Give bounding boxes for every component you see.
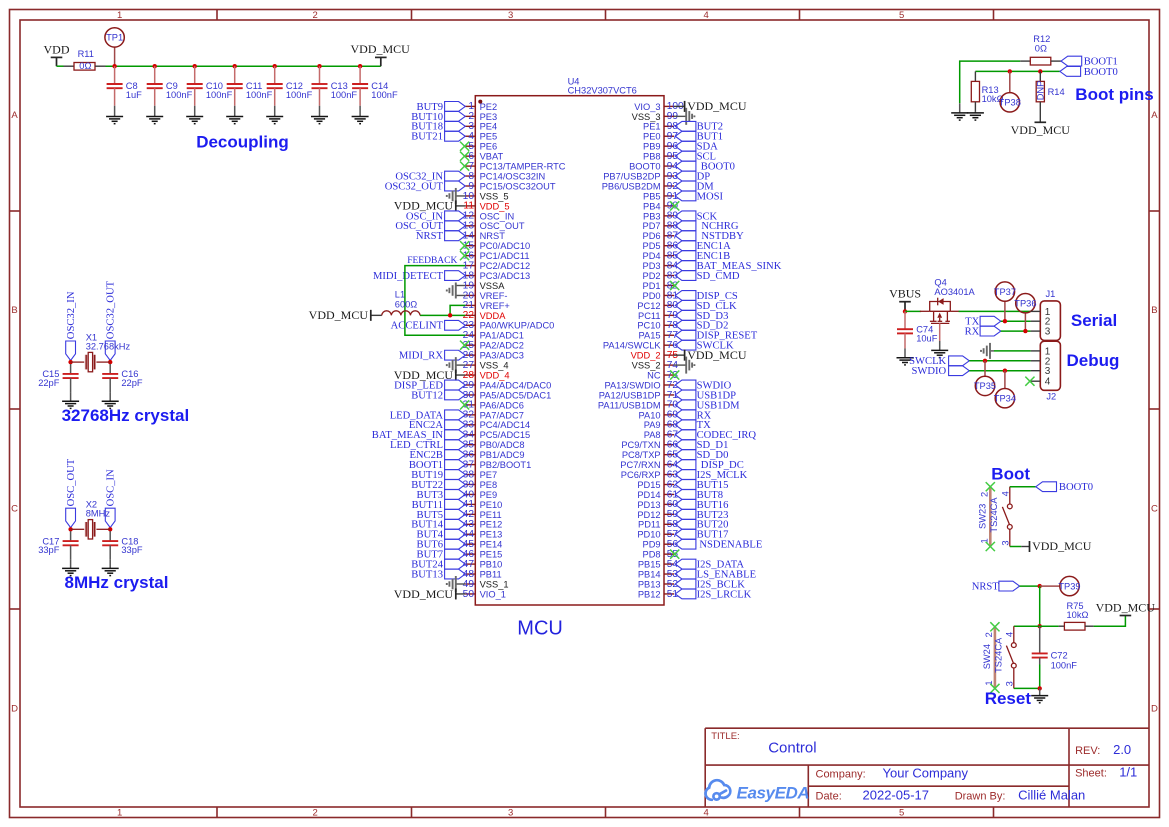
op-amp U4 MCU body bbox=[475, 76, 664, 605]
net flag NSDENABLE bbox=[675, 539, 762, 550]
ground below C13 bbox=[311, 117, 328, 124]
pin 34 PC5/ADC15 bbox=[463, 430, 531, 441]
pin 47 PB10 bbox=[463, 559, 503, 570]
svg-text:2022-05-17: 2022-05-17 bbox=[863, 787, 930, 802]
pin 12 OSC_IN bbox=[463, 211, 515, 222]
net flag BUT1 bbox=[675, 131, 723, 142]
no-connect pin 82 bbox=[670, 281, 679, 290]
pin 97 PE0 bbox=[643, 131, 678, 142]
ground below BOOT1 wire bbox=[951, 103, 968, 120]
svg-text:Drawn By:: Drawn By: bbox=[955, 790, 1006, 802]
pin 67 PA8 bbox=[644, 430, 679, 441]
net flag ACCELINT bbox=[391, 320, 466, 331]
svg-text:VDD: VDD bbox=[44, 43, 70, 57]
net flag OSC32_OUT bbox=[105, 280, 116, 360]
svg-text:NSDENABLE: NSDENABLE bbox=[699, 540, 762, 551]
pin 5 PE6 bbox=[465, 141, 497, 152]
pin 78 PC10 bbox=[637, 320, 678, 331]
svg-text:4: 4 bbox=[1000, 491, 1010, 496]
pin 8 PC14/OSC32IN bbox=[465, 171, 545, 182]
net flag USB1DM bbox=[675, 400, 740, 411]
svg-text:PD2: PD2 bbox=[643, 271, 661, 281]
no-connect pin 25 bbox=[460, 341, 469, 350]
power flag VBUS bbox=[889, 287, 921, 312]
svg-text:PA9: PA9 bbox=[644, 420, 661, 430]
ground below C15 bbox=[62, 401, 79, 408]
pin 84 PD3 bbox=[643, 260, 679, 271]
power VDD_MCU at pin 100 bbox=[674, 99, 747, 113]
net flag ENC1A bbox=[675, 241, 731, 252]
net flag BUT7 bbox=[417, 549, 466, 560]
pin 31 PA6/ADC6 bbox=[463, 400, 524, 411]
net flag SCK bbox=[675, 211, 717, 222]
svg-text:3: 3 bbox=[1000, 540, 1010, 545]
net flag DP bbox=[675, 171, 710, 182]
svg-text:PC8/TXP: PC8/TXP bbox=[622, 450, 661, 460]
svg-text:PD1: PD1 bbox=[643, 281, 661, 291]
junction TX TP37 bbox=[1003, 319, 1007, 323]
svg-text:VDD_4: VDD_4 bbox=[480, 370, 510, 380]
svg-text:PC4/ADC14: PC4/ADC14 bbox=[480, 420, 531, 430]
pin 73 NC bbox=[647, 370, 678, 381]
svg-text:PE0: PE0 bbox=[643, 132, 661, 142]
resistor R14 DNP bbox=[1036, 71, 1065, 122]
power VDD_MCU at R75 bbox=[1096, 600, 1156, 615]
pin 19 VSSA bbox=[463, 280, 506, 291]
ground below C16 bbox=[102, 401, 119, 408]
svg-text:VBAT: VBAT bbox=[480, 152, 504, 162]
ground below C9 bbox=[146, 117, 163, 124]
pin 37 PB2/BOOT1 bbox=[463, 459, 532, 470]
net flag BUT20 bbox=[675, 519, 728, 530]
svg-text:PB15: PB15 bbox=[638, 560, 661, 570]
svg-text:CH32V307VCT6: CH32V307VCT6 bbox=[568, 86, 637, 96]
pin 94 BOOT0 bbox=[629, 161, 678, 172]
ground at J2 pin1 bbox=[981, 343, 994, 359]
capacitor C10 bbox=[187, 66, 233, 116]
svg-text:Your Company: Your Company bbox=[883, 765, 969, 780]
svg-text:PE11: PE11 bbox=[480, 510, 502, 520]
svg-text:3: 3 bbox=[1004, 681, 1014, 686]
net flag SD_CMD bbox=[675, 271, 740, 282]
connector J1 bbox=[1031, 289, 1061, 341]
net flag BUT18 bbox=[411, 121, 465, 132]
svg-text:PD11: PD11 bbox=[638, 520, 661, 530]
pin 43 PE12 bbox=[463, 519, 503, 530]
pin 69 PA10 bbox=[639, 410, 679, 421]
svg-text:3: 3 bbox=[1045, 327, 1051, 338]
wire SW24 pin3 to ground node bbox=[1014, 687, 1040, 689]
svg-text:32.768kHz: 32.768kHz bbox=[86, 341, 131, 351]
svg-text:OSC32_IN: OSC32_IN bbox=[66, 291, 77, 339]
svg-text:8MHz crystal: 8MHz crystal bbox=[65, 573, 169, 592]
junction SWDIO TP34 bbox=[1003, 369, 1007, 373]
net flag OSC_IN bbox=[105, 469, 116, 528]
no-connect pin 7 bbox=[460, 162, 469, 171]
junction ground node bbox=[1038, 686, 1042, 690]
svg-text:Control: Control bbox=[768, 740, 816, 757]
svg-text:PC12: PC12 bbox=[637, 301, 660, 311]
pin 30 PA5/ADC5/DAC1 bbox=[463, 390, 552, 401]
svg-text:PB7/USB2DP: PB7/USB2DP bbox=[603, 171, 660, 181]
wire crystal X1 left node bbox=[70, 360, 72, 364]
junction VBUS node bbox=[903, 309, 907, 313]
pin 68 PA9 bbox=[644, 420, 679, 431]
pin 86 PD5 bbox=[643, 241, 679, 252]
svg-text:J1: J1 bbox=[1046, 289, 1056, 299]
pin 49 VSS_1 bbox=[463, 579, 509, 590]
pin 15 PC0/ADC10 bbox=[463, 241, 531, 252]
wire VDD to R11 bbox=[57, 65, 64, 67]
svg-text:RX: RX bbox=[965, 327, 980, 338]
pin 28 VDD_4 bbox=[463, 370, 510, 381]
pin 23 PA0/WKUP/ADC0 bbox=[463, 320, 555, 331]
svg-text:PA15: PA15 bbox=[639, 331, 661, 341]
svg-text:PB8: PB8 bbox=[643, 152, 661, 162]
pin 46 PE15 bbox=[463, 549, 503, 560]
wire Q4 to J1 pin1 bbox=[959, 310, 1031, 312]
svg-text:TP37: TP37 bbox=[994, 287, 1016, 297]
pin 71 PA12/USB1DP bbox=[599, 390, 679, 401]
pin 35 PB0/ADC8 bbox=[463, 440, 525, 451]
net flag BUT13 bbox=[411, 569, 465, 580]
svg-text:PD3: PD3 bbox=[643, 261, 661, 271]
pin 42 PE11 bbox=[463, 509, 502, 520]
net flag RX bbox=[965, 326, 1001, 337]
net flag BUT2 bbox=[675, 121, 723, 132]
svg-text:VSS_3: VSS_3 bbox=[632, 112, 661, 122]
svg-text:VDDA: VDDA bbox=[480, 311, 507, 321]
net flag RX bbox=[675, 410, 711, 421]
no-connect J2 pin4 bbox=[1025, 377, 1034, 386]
svg-text:TITLE:: TITLE: bbox=[711, 731, 740, 742]
ground at pins 19-20 bbox=[447, 282, 466, 298]
net flag BUT24 bbox=[411, 559, 465, 570]
svg-text:C: C bbox=[1151, 504, 1158, 515]
svg-text:100nF: 100nF bbox=[286, 90, 313, 100]
svg-text:R11: R11 bbox=[78, 49, 94, 59]
svg-text:4: 4 bbox=[1045, 377, 1051, 388]
svg-text:SD_CMD: SD_CMD bbox=[697, 271, 740, 282]
pin 63 PC6/RXP bbox=[621, 469, 679, 480]
crystal X2 bbox=[71, 500, 111, 540]
svg-text:Debug: Debug bbox=[1067, 351, 1120, 370]
no-connect pin 16 bbox=[460, 251, 469, 260]
svg-text:PD12: PD12 bbox=[637, 510, 660, 520]
svg-text:100nF: 100nF bbox=[166, 90, 193, 100]
svg-text:VSS_2: VSS_2 bbox=[632, 361, 661, 371]
svg-text:PC1/ADC11: PC1/ADC11 bbox=[480, 251, 530, 261]
svg-text:2: 2 bbox=[313, 10, 318, 21]
pin 32 PA7/ADC7 bbox=[463, 410, 524, 421]
svg-text:B: B bbox=[11, 305, 17, 316]
pin 11 VDD_5 bbox=[463, 201, 509, 212]
net flag BUT8 bbox=[675, 490, 723, 501]
svg-text:PA4/ADC4/DAC0: PA4/ADC4/DAC0 bbox=[480, 380, 552, 390]
svg-text:PB12: PB12 bbox=[638, 589, 661, 599]
net flag BUT15 bbox=[675, 480, 728, 491]
net flag MOSI bbox=[675, 191, 723, 202]
svg-text:NRST: NRST bbox=[972, 582, 1000, 593]
svg-text:VSS_5: VSS_5 bbox=[480, 191, 509, 201]
svg-text:600Ω: 600Ω bbox=[395, 299, 418, 309]
power flag VDD bbox=[44, 43, 70, 67]
svg-text:Company:: Company: bbox=[816, 768, 866, 780]
capacitor C14 bbox=[352, 66, 398, 116]
ground below C10 bbox=[186, 117, 203, 124]
wire RX to J1 pin3 bbox=[1001, 330, 1031, 332]
pin 95 PB8 bbox=[643, 151, 678, 162]
svg-text:PA0/WKUP/ADC0: PA0/WKUP/ADC0 bbox=[480, 321, 555, 331]
svg-text:PE8: PE8 bbox=[480, 480, 498, 490]
net flag OSC32_IN bbox=[66, 291, 77, 360]
svg-text:TS24CA: TS24CA bbox=[994, 637, 1004, 673]
svg-text:VDD_MCU: VDD_MCU bbox=[1011, 123, 1071, 137]
power VDD_MCU at pin 50 bbox=[394, 587, 466, 601]
svg-text:PA5/ADC5/DAC1: PA5/ADC5/DAC1 bbox=[480, 390, 552, 400]
net flag SD_D3 bbox=[675, 310, 728, 321]
junction X2 left bbox=[68, 527, 72, 531]
svg-text:1/1: 1/1 bbox=[1119, 765, 1137, 780]
svg-text:PC5/ADC15: PC5/ADC15 bbox=[480, 430, 531, 440]
svg-text:MOSI: MOSI bbox=[697, 191, 724, 202]
pin 76 PA14/SWCLK bbox=[603, 340, 678, 351]
net flag DISP_RESET bbox=[675, 330, 758, 341]
svg-text:L1: L1 bbox=[395, 289, 405, 299]
pin 80 PC12 bbox=[637, 300, 678, 311]
svg-text:2: 2 bbox=[313, 807, 318, 818]
svg-text:PA6/ADC6: PA6/ADC6 bbox=[480, 400, 524, 410]
svg-text:VDD_MCU: VDD_MCU bbox=[1096, 600, 1156, 614]
svg-text:32768Hz crystal: 32768Hz crystal bbox=[62, 406, 190, 425]
title block bbox=[705, 728, 1149, 807]
svg-text:PB5: PB5 bbox=[643, 191, 661, 201]
svg-text:4: 4 bbox=[704, 10, 709, 21]
pin 64 PC7/RXN bbox=[620, 459, 678, 470]
wire SWCLK to J2 pin2 bbox=[969, 360, 1030, 362]
net flag LED_DATA bbox=[390, 410, 466, 421]
net flag DISP_CS bbox=[675, 291, 738, 302]
capacitor C16 bbox=[102, 364, 143, 401]
net flag BOOT0 boot section bbox=[1036, 482, 1093, 493]
pin 89 PB3 bbox=[643, 211, 678, 222]
svg-text:PC9/TXN: PC9/TXN bbox=[621, 440, 660, 450]
capacitor C17 bbox=[38, 531, 78, 568]
svg-text:PD5: PD5 bbox=[643, 241, 661, 251]
pin 74 VSS_2 bbox=[632, 360, 679, 371]
svg-text:PD7: PD7 bbox=[643, 221, 661, 231]
no-connect SW23 pin1 bbox=[986, 542, 995, 551]
pin 72 PA13/SWDIO bbox=[604, 380, 678, 391]
net flag USB1DP bbox=[675, 390, 736, 401]
wire J2 pin1 to ground bbox=[994, 350, 1031, 352]
pin 77 PA15 bbox=[639, 330, 679, 341]
ground below C8 bbox=[106, 117, 123, 124]
svg-text:ACCELINT: ACCELINT bbox=[391, 321, 444, 332]
svg-text:PD15: PD15 bbox=[637, 480, 660, 490]
wire pin22 VDDA bbox=[420, 314, 465, 316]
svg-text:VDD_5: VDD_5 bbox=[480, 201, 510, 211]
pin 81 PD0 bbox=[643, 290, 679, 301]
junction VDDA node bbox=[448, 313, 452, 317]
power VDD_MCU below R14 bbox=[1011, 122, 1071, 137]
svg-text:AO3401A: AO3401A bbox=[934, 287, 975, 297]
net flag TX bbox=[965, 316, 1001, 327]
svg-text:PC2/ADC12: PC2/ADC12 bbox=[480, 261, 531, 271]
svg-text:VDD_MCU: VDD_MCU bbox=[687, 99, 747, 113]
net flag SDA bbox=[675, 141, 718, 152]
ground at pin 99 bbox=[674, 108, 694, 125]
net flag BOOT0 bbox=[675, 161, 735, 172]
net flag BUT6 bbox=[417, 539, 466, 550]
net flag ENC2B bbox=[409, 450, 465, 461]
wire SWDIO to J2 pin3 bbox=[969, 370, 1030, 372]
test point TP1 bbox=[105, 28, 124, 66]
net flag SD_D0 bbox=[675, 450, 728, 461]
wire TX to J1 pin2 bbox=[1001, 320, 1031, 322]
svg-text:Boot pins: Boot pins bbox=[1075, 85, 1153, 104]
ground below C18 bbox=[102, 568, 119, 575]
svg-text:PB10: PB10 bbox=[480, 560, 503, 570]
power VDD_MCU at pin 75 bbox=[674, 348, 747, 362]
junction SWCLK TP35 bbox=[983, 359, 987, 363]
svg-text:VSSA: VSSA bbox=[480, 281, 506, 291]
svg-text:PB11: PB11 bbox=[480, 569, 502, 579]
svg-text:PC7/RXN: PC7/RXN bbox=[620, 460, 660, 470]
test point TP35 bbox=[974, 361, 996, 396]
svg-text:OSC_OUT: OSC_OUT bbox=[66, 458, 77, 506]
net flag SWDIO bbox=[675, 380, 731, 391]
net flag I2S_BCLK bbox=[675, 579, 745, 590]
net flag I2S_MCLK bbox=[675, 470, 747, 481]
EasyEDA logo bbox=[706, 780, 810, 802]
no-connect SW24 pin2 bbox=[990, 622, 999, 631]
svg-text:TP34: TP34 bbox=[994, 393, 1016, 403]
svg-text:1: 1 bbox=[117, 807, 122, 818]
pin 39 PE8 bbox=[463, 479, 498, 490]
svg-text:EasyEDA: EasyEDA bbox=[737, 783, 810, 802]
capacitor C18 bbox=[102, 531, 143, 568]
svg-text:100nF: 100nF bbox=[206, 90, 233, 100]
svg-text:0Ω: 0Ω bbox=[79, 61, 91, 71]
svg-text:PA14/SWCLK: PA14/SWCLK bbox=[603, 341, 661, 351]
pin 79 PC11 bbox=[638, 310, 678, 321]
svg-text:R14: R14 bbox=[1048, 87, 1065, 97]
svg-text:100nF: 100nF bbox=[371, 90, 398, 100]
capacitor C74 bbox=[897, 311, 938, 357]
net flag BUT19 bbox=[411, 470, 465, 481]
svg-text:Reset: Reset bbox=[985, 689, 1032, 708]
svg-text:VSS_4: VSS_4 bbox=[480, 361, 509, 371]
pin 6 VBAT bbox=[465, 151, 503, 162]
svg-text:PE4: PE4 bbox=[480, 122, 498, 132]
pin 14 NRST bbox=[463, 231, 506, 242]
pin 65 PC8/TXP bbox=[622, 449, 679, 460]
svg-text:PD8: PD8 bbox=[643, 550, 661, 560]
capacitor C15 bbox=[38, 364, 78, 401]
pin 83 PD2 bbox=[643, 270, 679, 281]
junction node at C14 bbox=[358, 64, 362, 68]
svg-text:DNP: DNP bbox=[1036, 81, 1046, 101]
pin 59 PD12 bbox=[637, 509, 678, 520]
net flag DM bbox=[675, 181, 714, 192]
pin 1 PE2 bbox=[465, 101, 497, 112]
svg-text:PB9: PB9 bbox=[643, 142, 661, 152]
svg-text:PD9: PD9 bbox=[643, 540, 661, 550]
net flag OSC32_IN bbox=[395, 171, 465, 182]
svg-text:4: 4 bbox=[704, 807, 709, 818]
svg-text:PE3: PE3 bbox=[480, 112, 498, 122]
ground at pin 49 bbox=[447, 576, 466, 592]
svg-text:100nF: 100nF bbox=[246, 90, 273, 100]
inductor L1 bbox=[371, 289, 420, 315]
net flag BOOT1 bbox=[1061, 56, 1118, 67]
capacitor C9 bbox=[147, 66, 193, 116]
switch SW23 body bbox=[977, 487, 1012, 547]
pin 36 PB1/ADC9 bbox=[463, 449, 525, 460]
test point TP39 bbox=[1040, 576, 1081, 595]
wire C72 to ground node bbox=[1039, 665, 1041, 689]
pin 52 PB13 bbox=[638, 579, 679, 590]
power VDD_MCU at L1 bbox=[309, 308, 371, 322]
capacitor C72 bbox=[1032, 626, 1078, 670]
crystal X1 bbox=[71, 332, 131, 372]
resistor R12 bbox=[1020, 34, 1061, 65]
power VDD_MCU at pin 11 bbox=[394, 199, 466, 213]
svg-text:33pF: 33pF bbox=[38, 545, 60, 555]
net flag OSC_OUT bbox=[395, 221, 465, 232]
capacitor C11 bbox=[227, 66, 273, 116]
ground below SW24 bbox=[1031, 688, 1048, 702]
net flag BUT11 bbox=[412, 500, 466, 511]
pin 16 PC1/ADC11 bbox=[463, 250, 530, 261]
no-connect pin 5 bbox=[460, 142, 469, 151]
svg-text:PC6/RXP: PC6/RXP bbox=[621, 470, 661, 480]
svg-text:PD0: PD0 bbox=[643, 291, 661, 301]
power flag VDD_MCU top right bbox=[351, 42, 411, 66]
pin 96 PB9 bbox=[643, 141, 678, 152]
svg-text:NRST: NRST bbox=[480, 231, 506, 241]
svg-text:3: 3 bbox=[1045, 366, 1051, 377]
svg-text:SW24: SW24 bbox=[982, 644, 992, 669]
net flag BUT23 bbox=[675, 509, 728, 520]
svg-text:PB2/BOOT1: PB2/BOOT1 bbox=[480, 460, 532, 470]
svg-text:10uF: 10uF bbox=[916, 333, 938, 343]
net flag LED_CTRL bbox=[390, 440, 465, 451]
pin 57 PD10 bbox=[637, 529, 678, 540]
pin 7 PC13/TAMPER-RTC bbox=[465, 161, 566, 172]
net flag OSC_OUT bbox=[66, 458, 77, 527]
svg-text:PE13: PE13 bbox=[480, 530, 503, 540]
svg-text:4: 4 bbox=[1004, 632, 1014, 637]
pin 29 PA4/ADC4/DAC0 bbox=[463, 380, 552, 391]
pin 88 PD7 bbox=[643, 221, 679, 232]
test point TP34 bbox=[994, 371, 1016, 408]
svg-text:TP39: TP39 bbox=[1058, 581, 1080, 591]
svg-text:SWDIO: SWDIO bbox=[911, 366, 946, 377]
pin 22 VDDA bbox=[463, 310, 507, 321]
net flag SWCLK bbox=[675, 340, 734, 351]
ground below C12 bbox=[266, 117, 283, 124]
net flag SD_D1 bbox=[675, 440, 728, 451]
pin 25 PA2/ADC2 bbox=[463, 340, 524, 351]
pin 100 VIO_3 bbox=[634, 101, 684, 112]
svg-text:PA12/USB1DP: PA12/USB1DP bbox=[599, 390, 661, 400]
net flag MIDI_RX bbox=[399, 350, 465, 361]
pin 62 PD15 bbox=[637, 479, 678, 490]
svg-text:51: 51 bbox=[667, 589, 679, 600]
svg-text:A: A bbox=[11, 110, 18, 121]
